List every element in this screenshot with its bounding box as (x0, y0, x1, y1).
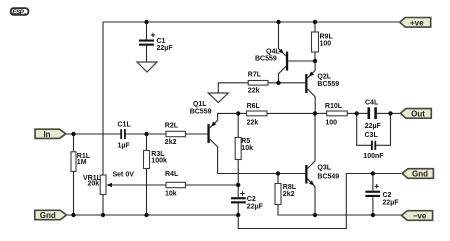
svg-text:22k: 22k (248, 88, 260, 95)
wire R9L (314, 22, 316, 32)
node R8L top / Q1L collector line (276, 171, 280, 175)
svg-text:Out: Out (411, 109, 425, 118)
svg-text:Q2L: Q2L (317, 74, 331, 81)
wire C2 left node (237, 185, 239, 197)
node R7L / Q4L collector (276, 81, 280, 85)
svg-text:BC559: BC559 (190, 108, 212, 115)
capacitor C3L (363, 132, 384, 160)
svg-text:Q1L: Q1L (193, 101, 207, 108)
node R4L / R5 / C2 left (236, 183, 240, 187)
wire R3L (146, 134, 148, 151)
resistor R1L (71, 152, 91, 172)
capacitor C1 (139, 33, 173, 52)
node -ve / C2 right bottom (371, 213, 375, 217)
wire Q4L collector (279, 66, 286, 83)
svg-text:In: In (43, 130, 50, 139)
svg-text:C3L: C3L (365, 132, 379, 139)
svg-text:100: 100 (320, 41, 332, 48)
node R9L bottom / Q4L base / Q2L emitter (313, 59, 317, 63)
svg-text:Set 0V: Set 0V (113, 172, 135, 179)
svg-text:R6L: R6L (247, 103, 261, 110)
wire R7L line (218, 83, 248, 93)
wire R8L top (277, 174, 279, 184)
svg-text:C4L: C4L (365, 100, 379, 107)
node R10L / C4L / C3L (355, 111, 359, 115)
node C1 / top rail (144, 20, 148, 24)
resistor R7L (248, 72, 268, 95)
wire top rail (103, 21, 400, 23)
transistor Q2L (305, 72, 339, 94)
wire VR1L bottom (102, 195, 104, 216)
wire In line (66, 133, 122, 135)
svg-text:1µF: 1µF (118, 143, 131, 150)
resistor R10L (325, 103, 347, 127)
wire C2 right (372, 174, 374, 191)
wire R6L line (238, 112, 246, 114)
transistor Q1L (190, 101, 217, 143)
resistor R4L (165, 171, 186, 198)
svg-text:22k: 22k (247, 120, 259, 127)
potentiometer VR1L (83, 172, 134, 195)
svg-text:C1L: C1L (118, 122, 132, 129)
wire Q2L emitter (308, 61, 316, 78)
node gnd / C2 left bottom (236, 213, 240, 217)
svg-text:C2: C2 (383, 192, 392, 199)
svg-text:2k2: 2k2 (165, 139, 177, 146)
wire Q1L emitter to R5 node (210, 113, 239, 128)
node Q1L emitter / R5 / R6L (236, 111, 240, 115)
wire R10L line (315, 112, 327, 114)
resistor R2L (165, 123, 186, 147)
wire R8L bottom to -ve line (278, 205, 402, 216)
svg-text:Gnd: Gnd (40, 211, 56, 220)
svg-text:R5: R5 (241, 138, 250, 145)
node C4L / C3L / Out (388, 111, 392, 115)
connector Gnd right (402, 169, 433, 179)
svg-text:+ve: +ve (410, 18, 424, 27)
svg-text:R7L: R7L (248, 72, 262, 79)
ESP logo (11, 8, 29, 16)
svg-text:22µF: 22µF (247, 204, 264, 211)
wire Q1L collector down (210, 139, 218, 174)
ground symbol (C1) (137, 62, 157, 72)
wire Q3L collector (308, 113, 316, 168)
wire VR1L wiper to R4L (107, 184, 166, 186)
wire R5 (237, 113, 239, 137)
svg-text:C2: C2 (247, 196, 256, 203)
node gnd / R3L (144, 213, 148, 217)
capacitor C4L (365, 100, 382, 131)
resistor R6L (247, 103, 268, 127)
connector +ve (400, 18, 431, 28)
wire R1L (73, 134, 75, 152)
wire C3L loop (357, 113, 371, 145)
node In / R1L (71, 132, 75, 136)
svg-text:10k: 10k (241, 145, 253, 152)
connector -ve (402, 211, 433, 221)
resistor R5 (235, 138, 253, 160)
svg-text:Q3L: Q3L (317, 165, 331, 172)
svg-text:R9L: R9L (320, 34, 334, 41)
node R6L / Q2L collector / Q3L collector / R10L (313, 111, 317, 115)
svg-text:BC559: BC559 (255, 56, 277, 63)
svg-text:2k2: 2k2 (283, 191, 295, 198)
connector Gnd left (35, 210, 67, 220)
wire C1 top (146, 22, 148, 40)
transistor Q3L (305, 165, 339, 186)
wire +ve rail left drop to VR1L (102, 22, 104, 175)
node gnd / R1L (71, 213, 75, 217)
node Q4L emitter / top rail (276, 20, 280, 24)
svg-text:C1: C1 (157, 38, 166, 45)
svg-text:R2L: R2L (165, 123, 179, 130)
svg-text:1M: 1M (77, 159, 87, 166)
svg-text:−ve: −ve (413, 211, 427, 220)
svg-text:BC549: BC549 (317, 174, 339, 181)
capacitor C2 (left) (231, 191, 264, 210)
wire Q1L collector line to Q3L base (218, 173, 305, 175)
node In / R3L (144, 132, 148, 136)
capacitor C1L (118, 122, 132, 150)
wire Q2L collector (308, 89, 316, 113)
svg-text:100: 100 (325, 120, 337, 127)
wire gnd jog under to right (238, 174, 401, 229)
wire C4L node wires (357, 112, 368, 114)
wire R4L to feedback node (186, 184, 238, 186)
svg-text:BC559: BC559 (317, 81, 339, 88)
svg-text:Q4L: Q4L (266, 49, 280, 56)
svg-text:Gnd: Gnd (412, 169, 428, 178)
ground symbol (R7L) (208, 93, 228, 103)
svg-text:20k: 20k (88, 180, 100, 187)
wire Q3L emitter (308, 179, 316, 215)
connector Out (400, 109, 431, 119)
svg-text:22µF: 22µF (383, 199, 400, 206)
wire Q4L emitter from rail (279, 22, 286, 56)
wire gnd left line (65, 214, 238, 216)
node -ve / Q3L emitter (313, 213, 317, 217)
svg-text:10k: 10k (165, 191, 177, 198)
node gnd right / C2 right top (371, 171, 375, 175)
svg-text:100nF: 100nF (363, 153, 384, 160)
wire C1 bottom to ground (146, 46, 148, 63)
node gnd / VR1L (101, 213, 105, 217)
wire Q4L base to R9L node (288, 60, 315, 62)
svg-text:R4L: R4L (165, 171, 179, 178)
resistor R9L (312, 32, 334, 52)
transistor Q4L (255, 49, 288, 71)
connector In (35, 129, 66, 139)
svg-text:22µF: 22µF (365, 123, 382, 130)
svg-text:R10L: R10L (325, 103, 343, 110)
svg-text:R8L: R8L (283, 184, 297, 191)
resistor R8L (275, 184, 297, 205)
resistor R3L (144, 151, 167, 169)
capacitor C2 (right) (365, 184, 399, 206)
node R9L / top rail (313, 20, 317, 24)
svg-text:100k: 100k (151, 157, 167, 164)
svg-text:22µF: 22µF (157, 45, 174, 52)
